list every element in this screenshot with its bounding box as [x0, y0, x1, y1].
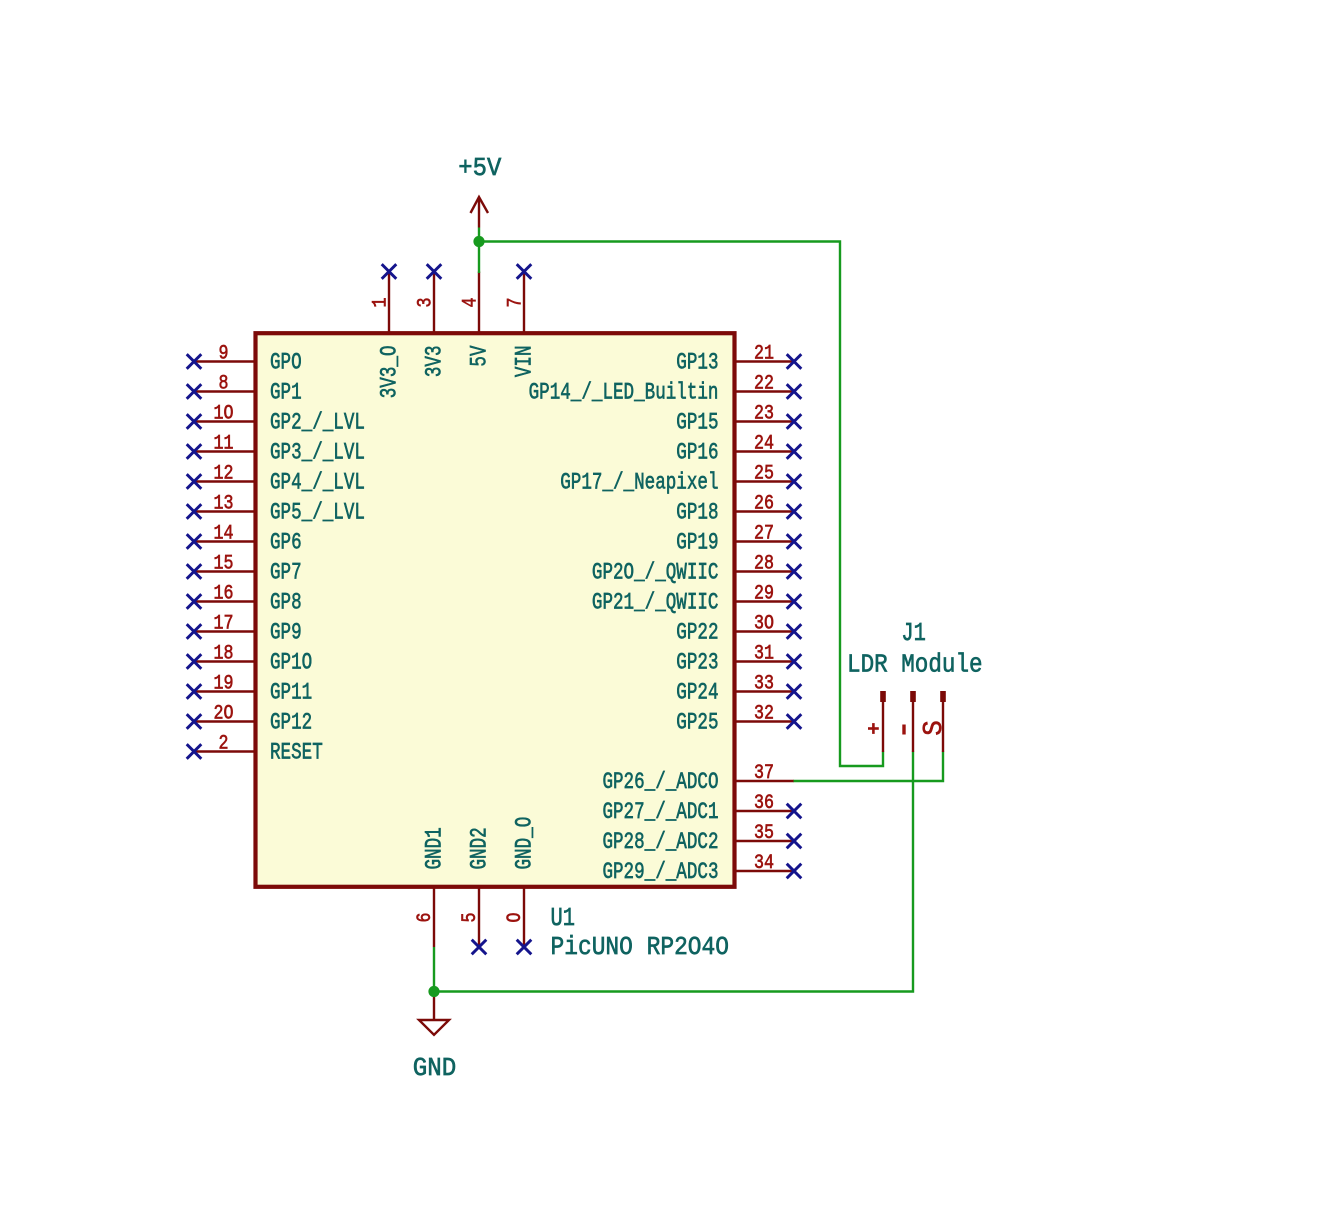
svg-text:5V: 5V	[468, 346, 494, 367]
svg-text:GP24: GP24	[676, 681, 718, 707]
svg-text:S: S	[920, 720, 950, 736]
svg-text:U1: U1	[551, 903, 576, 933]
svg-text:LDR Module: LDR Module	[847, 650, 983, 680]
svg-text:GP22: GP22	[676, 621, 718, 647]
svg-text:J1: J1	[901, 618, 926, 648]
svg-text:1O: 1O	[214, 403, 234, 426]
svg-text:24: 24	[754, 433, 774, 456]
svg-text:GP17_/_Neapixel: GP17_/_Neapixel	[560, 471, 718, 497]
svg-text:GP23: GP23	[676, 651, 718, 677]
svg-text:21: 21	[754, 343, 774, 366]
svg-text:37: 37	[754, 762, 774, 785]
svg-text:14: 14	[214, 523, 234, 546]
svg-text:28: 28	[754, 553, 774, 576]
svg-text:GP28_/_ADC2: GP28_/_ADC2	[602, 830, 718, 856]
svg-text:GP6: GP6	[270, 531, 302, 557]
svg-text:35: 35	[754, 822, 774, 845]
svg-text:4: 4	[460, 298, 483, 308]
svg-text:O: O	[504, 913, 527, 923]
svg-text:29: 29	[754, 583, 774, 606]
svg-text:18: 18	[214, 643, 234, 666]
svg-text:26: 26	[754, 493, 774, 516]
svg-text:2: 2	[219, 733, 229, 756]
svg-text:GP29_/_ADC3: GP29_/_ADC3	[602, 860, 718, 886]
svg-text:PicUNO RP2O4O: PicUNO RP2O4O	[551, 932, 730, 962]
svg-text:17: 17	[214, 613, 234, 636]
svg-text:34: 34	[754, 852, 774, 875]
svg-text:36: 36	[754, 792, 774, 815]
svg-text:RESET: RESET	[270, 741, 323, 767]
svg-text:12: 12	[214, 463, 234, 486]
svg-text:9: 9	[219, 343, 229, 366]
svg-text:GP14_/_LED_Builtin: GP14_/_LED_Builtin	[529, 381, 719, 407]
svg-text:3: 3	[415, 298, 438, 308]
svg-text:GP13: GP13	[676, 351, 718, 377]
svg-text:GP11: GP11	[270, 681, 312, 707]
svg-text:6: 6	[414, 913, 437, 923]
svg-text:GP2_/_LVL: GP2_/_LVL	[270, 411, 365, 437]
svg-text:19: 19	[214, 673, 234, 696]
svg-text:33: 33	[754, 673, 774, 696]
svg-text:GP1O: GP1O	[270, 651, 312, 677]
svg-text:GP8: GP8	[270, 591, 302, 617]
svg-text:3V3: 3V3	[423, 346, 449, 378]
svg-text:GND1: GND1	[423, 827, 449, 869]
svg-text:GP7: GP7	[270, 561, 302, 587]
svg-text:23: 23	[754, 403, 774, 426]
svg-text:GP18: GP18	[676, 501, 718, 527]
svg-text:25: 25	[754, 463, 774, 486]
svg-text:GP26_/_ADCO: GP26_/_ADCO	[602, 770, 718, 796]
svg-text:GP9: GP9	[270, 621, 302, 647]
svg-text:1: 1	[370, 298, 393, 308]
svg-text:GP16: GP16	[676, 441, 718, 467]
svg-text:GP15: GP15	[676, 411, 718, 437]
svg-text:3V3_O: 3V3_O	[378, 346, 404, 399]
svg-text:GP5_/_LVL: GP5_/_LVL	[270, 501, 365, 527]
svg-text:2O: 2O	[214, 703, 234, 726]
svg-text:8: 8	[219, 373, 229, 396]
svg-text:GP19: GP19	[676, 531, 718, 557]
svg-text:3O: 3O	[754, 613, 774, 636]
svg-text:27: 27	[754, 523, 774, 546]
svg-text:+5V: +5V	[458, 153, 501, 183]
svg-text:11: 11	[214, 433, 234, 456]
svg-text:7: 7	[505, 298, 528, 308]
svg-text:32: 32	[754, 703, 774, 726]
svg-text:VIN: VIN	[513, 346, 539, 378]
svg-text:GPO: GPO	[270, 351, 302, 377]
svg-text:GND_O: GND_O	[513, 817, 539, 870]
svg-text:15: 15	[214, 553, 234, 576]
svg-text:GP4_/_LVL: GP4_/_LVL	[270, 471, 365, 497]
svg-text:GP2O_/_QWIIC: GP2O_/_QWIIC	[592, 561, 719, 587]
svg-text:GND: GND	[413, 1053, 457, 1083]
svg-text:31: 31	[754, 643, 774, 666]
svg-text:22: 22	[754, 373, 774, 396]
svg-text:GP3_/_LVL: GP3_/_LVL	[270, 441, 365, 467]
svg-text:GP25: GP25	[676, 711, 718, 737]
svg-text:16: 16	[214, 583, 234, 606]
svg-text:5: 5	[459, 913, 482, 923]
svg-text:GP1: GP1	[270, 381, 302, 407]
svg-text:GND2: GND2	[468, 827, 494, 869]
svg-text:GP21_/_QWIIC: GP21_/_QWIIC	[592, 591, 719, 617]
svg-text:13: 13	[214, 493, 234, 516]
svg-text:GP27_/_ADC1: GP27_/_ADC1	[602, 800, 718, 826]
svg-text:GP12: GP12	[270, 711, 312, 737]
